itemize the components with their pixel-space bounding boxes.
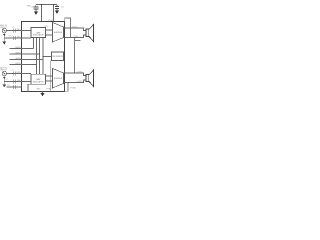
junction dot outr+ v2 — [74, 72, 75, 73]
wire bootstrap loop — [65, 18, 71, 38]
labels — [0, 5, 84, 90]
speaker R — [86, 70, 94, 86]
svg-text:H-BRIDGE: H-BRIDGE — [54, 78, 63, 80]
wire OUTR+ — [65, 73, 86, 76]
svg-text:PVDD: PVDD — [48, 20, 54, 22]
wire oscillator down — [50, 61, 52, 92]
wires modulator L to H-bridge L — [46, 30, 53, 35]
junction dot rail-left — [41, 4, 43, 6]
capacitor CI4 — [13, 80, 15, 84]
wire OUTR- — [65, 80, 86, 83]
wire COSC line — [7, 86, 22, 88]
wire inter-channel vertical — [74, 38, 76, 74]
wire VDD rail — [36, 4, 57, 6]
svg-text:INPUT: INPUT — [0, 27, 7, 29]
wire control SHUTDOWN — [10, 59, 44, 61]
svg-text:MODULATOR: MODULATOR — [33, 34, 44, 37]
svg-text:INR-: INR- — [17, 80, 21, 82]
svg-text:OUTR+: OUTR+ — [77, 71, 84, 73]
wire source L down — [3, 33, 5, 42]
svg-text:GAIN1: GAIN1 — [15, 51, 21, 54]
wire AVDD drop — [53, 5, 55, 22]
ground source L — [3, 42, 7, 45]
H-bridge R trapezoid — [53, 69, 64, 89]
wire stub right — [75, 40, 81, 42]
ground below IC — [42, 91, 44, 93]
wire INR+ line — [7, 73, 31, 75]
capacitor CI1 — [13, 29, 15, 33]
wire speaker return to gnd — [65, 83, 68, 92]
ground under CS2 — [55, 11, 59, 14]
wire control GAIN0 — [10, 48, 34, 50]
svg-text:PGND: PGND — [70, 87, 76, 89]
wire control MUTE — [10, 64, 37, 66]
capacitor CC — [13, 85, 15, 89]
modulator box R — [31, 74, 46, 84]
wire OUTL+ — [65, 28, 86, 31]
wire modR gnd — [28, 84, 31, 91]
wire control GAIN1 — [10, 53, 40, 55]
bus leg A — [33, 38, 35, 49]
junction dot gnd bus — [42, 91, 43, 92]
capacitor CS1 — [35, 5, 37, 12]
junction dot rail-right — [53, 4, 55, 6]
IC outline U1 — [22, 22, 65, 92]
capacitor CS2 — [56, 5, 58, 11]
svg-text:PWM: PWM — [44, 26, 49, 28]
oscillator box — [52, 52, 64, 61]
wire INL- line — [4, 37, 31, 39]
ground under CS1 — [34, 12, 38, 15]
wire source R down — [3, 76, 5, 85]
wire INL+ line — [7, 30, 32, 32]
svg-text:INPUT: INPUT — [0, 70, 7, 72]
svg-text:MODULATOR: MODULATOR — [33, 80, 44, 83]
wire PVDD drop — [41, 5, 43, 22]
svg-text:OSCILLATOR: OSCILLATOR — [52, 55, 63, 58]
junction dot outl- v2 — [74, 37, 75, 38]
speaker L — [86, 25, 94, 42]
arrowhead source R — [3, 77, 5, 79]
svg-text:OUTR-: OUTR- — [77, 81, 83, 83]
bus C — [39, 38, 41, 75]
bus B — [36, 38, 38, 75]
wire oscillator input — [43, 56, 52, 58]
svg-text:MUTE: MUTE — [15, 63, 21, 65]
modulator box L — [31, 28, 46, 38]
svg-text:PGND: PGND — [46, 89, 52, 91]
svg-text:SHDN: SHDN — [15, 58, 21, 60]
H-bridge L trapezoid — [53, 23, 64, 43]
arrowhead source L — [3, 34, 5, 36]
svg-text:INL-: INL- — [17, 36, 21, 38]
junction dot bus C ctrl2 — [39, 53, 40, 54]
svg-text:OUTL-: OUTL- — [74, 36, 80, 38]
wires modulator R to H-bridge R — [46, 76, 53, 81]
junction dot bus D osc — [42, 56, 43, 57]
wire INR- line — [4, 81, 31, 83]
ground source R — [3, 84, 7, 87]
svg-text:H-BRIDGE: H-BRIDGE — [54, 32, 63, 34]
svg-text:GAIN0: GAIN0 — [15, 46, 21, 49]
audio source L circle — [2, 28, 31, 41]
capacitor CI2 — [13, 36, 15, 40]
junction dot outl+ — [70, 27, 71, 28]
audio source R circle — [2, 71, 31, 89]
capacitor CI3 — [13, 72, 15, 76]
svg-text:OUTL+: OUTL+ — [72, 26, 79, 28]
svg-text:GND: GND — [36, 89, 41, 91]
bus D — [42, 38, 44, 75]
junction dot bus B ctrl4 — [36, 64, 37, 65]
wire OUTL- — [65, 35, 86, 38]
